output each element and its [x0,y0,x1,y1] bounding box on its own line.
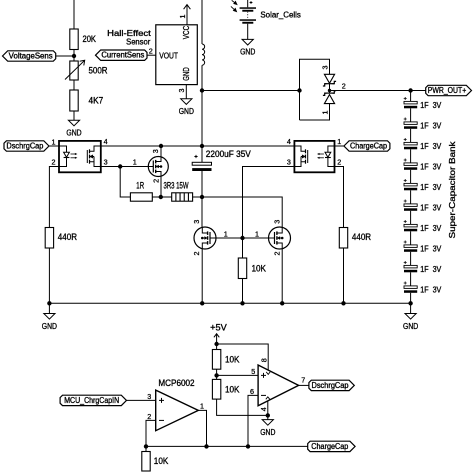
svg-text:GND: GND [179,107,194,116]
wire: node B to diode anodes [202,90,300,92]
svg-text:4: 4 [287,137,291,146]
svg-text:10K: 10K [154,456,169,466]
svg-text:440R: 440R [352,232,371,242]
junction pin4/GND node [266,413,270,417]
wire: diode pin 2 to PWR_OUT node [330,90,411,92]
wire: 10K pulldown to GND rail [242,279,244,304]
wire: cap node to M3 drain [202,197,282,227]
svg-text:3: 3 [177,89,186,93]
junction cap bottom node [200,195,204,199]
wire: divider top to mid node [216,369,218,375]
wire: U4B output to DschrgCap label [299,384,309,386]
wire: source node to 3R3 [161,196,172,198]
junction gate node [240,236,244,240]
svg-text:VoltageSens: VoltageSens [9,52,53,61]
wire: M1 source down [160,176,162,197]
svg-text:1F 3V: 1F 3V [420,182,441,192]
svg-text:7: 7 [301,375,305,384]
wire: DschrgCap label to U2 pin 1 [49,145,59,147]
svg-text:GND: GND [66,129,81,138]
svg-text:1R: 1R [136,180,144,190]
wire: U2 pin 2 to 440R [49,167,59,228]
junction feedback left [144,444,148,448]
junction node B (inductor/solar) [200,88,204,92]
svg-text:Sensor: Sensor [126,37,150,47]
svg-text:GND: GND [403,322,418,331]
wire: C6 to C7 [410,211,412,225]
junction gate/1R node [118,164,122,168]
junction PWR_OUT node [408,88,412,92]
optocoupler U2 [59,141,101,172]
wire: 3R3 to cap node [193,196,202,198]
svg-text:2: 2 [52,158,56,167]
resistor 20K [70,29,78,50]
capacitor C3 1F supercap [404,138,418,149]
wire: 2200uF to cap node [201,171,203,197]
wire: top feed to inductor [201,0,203,44]
svg-text:ChargeCap: ChargeCap [311,442,349,451]
svg-text:6: 6 [250,387,254,396]
resistor 10K divider top [212,350,220,370]
svg-text:1F 3V: 1F 3V [420,121,441,131]
svg-text:3: 3 [104,157,108,166]
op-amp U4B MCP6002 [258,365,299,406]
wire: cap node down to M2 drain [201,197,203,227]
wire: U4A pin 2 feedback [146,420,156,446]
potentiometer 500R [65,60,85,80]
wire: U3 pin 2 to 440R right [335,167,344,228]
svg-text:2: 2 [152,179,161,183]
wire: mid node to op-amp pin 5 [217,374,259,376]
wire: mid node to divider bottom [216,375,218,379]
wire: feedback rail [146,445,308,447]
svg-text:VOUT: VOUT [159,50,178,60]
wire: U4B pin 6 wire [248,395,258,446]
wire: rail to 2200uF [201,146,203,162]
junction divider mid node [214,373,218,377]
wire: node to PWR_OUT+ label [411,90,426,92]
wire: op-amp U4B pin 4 to GND [267,401,269,416]
junction diode pin 2 [328,89,331,92]
svg-text:CurrentSens: CurrentSens [101,51,144,60]
wire: gate node to M3 gate [243,237,269,239]
svg-text:DschrgCap: DschrgCap [6,142,44,151]
ground right of rail [403,314,418,331]
svg-text:MCP6002: MCP6002 [158,378,194,388]
svg-text:1F 3V: 1F 3V [420,285,441,295]
svg-text:2: 2 [192,252,201,256]
wire: top feed to 20K [73,0,75,29]
junction 2200uF top on rail [200,144,204,148]
svg-text:1: 1 [52,138,56,147]
junction diode anode node [297,88,301,92]
op-amp U4B V+ chevron [266,372,270,375]
capacitor C5 1F supercap [404,179,418,190]
op-amp U4A minus mark [159,419,164,421]
wire: PWR_OUT node down to C1 [410,91,412,102]
wire: C4 to C5 [410,170,412,184]
wire: feedback node to 10K bottom [145,446,147,451]
wire: diode common cathode [329,84,331,93]
svg-text:1F 3V: 1F 3V [420,264,441,274]
svg-text:GND: GND [182,67,191,80]
resistor 3R3 15W [172,193,193,201]
svg-text:5: 5 [251,367,255,376]
ground under 4K7 [66,120,81,137]
svg-text:3: 3 [287,157,291,166]
wire: sensor GND pin 3 [185,85,187,99]
op-amp U4B V- chevron [266,397,270,400]
optocoupler U2 internal photoFET [87,146,101,167]
svg-text:Super-Capacitor Bank: Super-Capacitor Bank [448,140,457,238]
svg-text:10K: 10K [252,263,267,273]
transistor M2 [194,227,216,249]
svg-text:1F 3V: 1F 3V [420,141,441,151]
junction rail/440R left [47,301,51,305]
transistor M1 [148,157,168,177]
capacitor C4 1F supercap [404,159,418,170]
capacitor C8 1F supercap [404,241,418,252]
wire: C3 to C4 [410,149,412,163]
ground under solar cells [240,39,255,56]
wire: gate node down to 1R [120,167,130,198]
optocoupler U3 internal LED [325,146,335,167]
wire: C9 to C10 [410,272,412,286]
wire: 1R to M1 source node [152,196,161,198]
svg-text:1: 1 [200,401,204,410]
wire: +5V node to op-amp pin 8 [217,344,269,370]
wire: 440R right to GND rail [343,248,345,303]
optocoupler U3 internal photoFET [294,146,307,167]
wire: C1 to C2 [410,108,412,122]
op-amp U4A plus mark [159,398,164,403]
inductor L1 [202,44,205,65]
svg-text:4: 4 [104,137,108,146]
svg-text:1F 3V: 1F 3V [420,203,441,213]
capacitor C2 1F supercap [404,118,418,129]
transistor M3 [269,227,291,249]
junction rail/supercap bank [408,301,412,305]
junction U4A output node [204,444,208,448]
wire: main GND rail [49,302,410,304]
capacitor C7 1F supercap [404,220,418,231]
svg-text:3: 3 [192,220,201,224]
wire: C2 to C3 [410,129,412,143]
net label ChargeCap (bottom) [308,441,355,451]
wire: diode anode loop bottom [300,104,330,120]
svg-text:500R: 500R [89,66,108,76]
junction +5V node [214,342,218,346]
svg-text:1F 3V: 1F 3V [420,223,441,233]
wire: GND node stub [267,415,269,419]
svg-text:2: 2 [147,412,151,421]
junction M1 source / resistor node [159,195,163,199]
wire: 440R left to GND rail [48,248,50,303]
wire: U3 pin 3 to gate node [243,167,295,239]
capacitor C6 1F supercap [404,200,418,211]
wire: VoltageSens label to node [56,55,74,57]
junction M1 drain on rail [159,144,163,148]
svg-text:PWR_OUT+: PWR_OUT+ [428,86,467,95]
dual schottky diode D1 top half [323,74,336,86]
capacitor 2200uF 35V [192,155,211,171]
junction rail/M3 source [280,301,284,305]
svg-text:2200uF 35V: 2200uF 35V [206,149,251,159]
net label DschrgCap (output) [309,380,354,390]
optocoupler U2 light arrows [71,153,78,159]
op-amp U4B plus mark [261,373,266,378]
svg-text:2: 2 [273,252,282,256]
wire: gate node to 10K pulldown [242,238,244,258]
svg-text:DschrgCap: DschrgCap [312,381,350,390]
wire: U2 pin 4 to U3 pin 4 rail [101,145,295,147]
junction pin6/rail [246,444,250,448]
svg-text:20K: 20K [83,34,97,44]
net label CurrentSens [96,50,148,60]
wire: inductor to node B [201,65,203,90]
svg-text:2: 2 [337,157,341,166]
op-amp U4B minus mark [261,394,266,396]
net label MCU_ChrgCapIN [60,395,126,405]
wire: CurrentSens label to VOUT pin [147,54,156,56]
svg-text:3: 3 [147,392,151,401]
net label PWR_OUT+ [426,85,472,95]
ground op-amp U4B [260,420,275,437]
capacitor C9 1F supercap [404,261,418,272]
wire: divider bottom to GND node [217,399,268,415]
junction rail/M2 source [200,301,204,305]
wire: C5 to C6 [410,190,412,204]
wire: node B down to rail [201,91,203,147]
svg-text:MCU_ChrgCapIN: MCU_ChrgCapIN [64,396,119,405]
wire: rail stub to left GND [48,303,50,313]
svg-text:1: 1 [255,229,259,238]
optocoupler U3 [294,141,334,172]
svg-text:GND: GND [42,322,57,331]
wire: C10 to GND rail [410,293,412,304]
svg-text:3: 3 [151,149,160,153]
op-amp U4A MCP6002 [156,390,199,431]
svg-text:GND: GND [260,428,275,437]
resistor 10K feedback [142,452,150,472]
net label VoltageSens [3,51,56,61]
svg-text:ChargeCap: ChargeCap [350,142,388,151]
capacitor C1 1F supercap [404,97,418,108]
wire: C7 to C8 [410,231,412,245]
svg-text:440R: 440R [58,232,77,242]
wire: top feed to solar cells [247,0,249,7]
svg-text:8: 8 [260,358,269,362]
wire: +5V node to 10K divider top [216,344,218,350]
wire: 4K7 to GND [73,111,75,120]
resistor 10K gate pulldown [238,258,246,279]
svg-text:3R3 15W: 3R3 15W [164,180,189,190]
svg-text:Solar_Cells: Solar_Cells [260,10,301,20]
svg-text:3: 3 [273,220,282,224]
optocoupler U3 light arrows [317,153,324,159]
svg-text:4K7: 4K7 [89,96,104,106]
svg-text:1: 1 [133,158,137,167]
wire: M1 drain to rail [160,146,162,157]
wire: MCU_ChrgCapIN to U4A pin 3 [127,399,156,401]
Hall-Effect sensor U1 [156,25,198,85]
wire: M2 gate to gate node [216,237,243,239]
svg-text:2: 2 [149,47,153,56]
net label ChargeCap (top) [344,141,390,151]
capacitor C10 1F supercap [404,282,418,293]
svg-text:1: 1 [224,229,228,238]
optocoupler U2 internal LED [59,146,69,167]
resistor 440R right [339,228,347,249]
power +5V symbol [214,334,219,344]
wire: 20K to node VoltageSens [73,50,75,62]
svg-text:10K: 10K [225,354,240,364]
svg-text:1: 1 [337,137,341,146]
svg-text:GND: GND [240,48,255,57]
wire: U2 pin 3 to M1 gate [101,166,149,168]
junction VoltageSens node [72,54,76,58]
power arrow on VCC pin 1 [184,5,191,25]
wire: diode anode loop [300,59,330,120]
dual schottky diode D1 bottom half [323,91,336,104]
wire: rail stub to right GND [410,303,412,313]
svg-text:1F 3V: 1F 3V [420,162,441,172]
svg-text:2: 2 [342,81,346,90]
svg-text:1: 1 [320,111,329,115]
wire: C8 to C9 [410,252,412,266]
svg-text:1F 3V: 1F 3V [420,100,441,110]
svg-text:VCC: VCC [182,26,191,39]
svg-text:10K: 10K [225,384,240,394]
resistor 10K divider bottom [212,379,220,399]
junction rail/10K pulldown [240,301,244,305]
wire: U3 pin 1 to ChargeCap label [335,145,344,147]
resistor 440R left [45,228,53,249]
ground left of rail [42,314,57,331]
svg-text:1: 1 [178,15,187,19]
resistor 4K7 [70,90,78,111]
net label DschrgCap [4,141,49,151]
wire: M3 source to GND rail [281,249,283,303]
svg-text:+5V: +5V [210,323,227,333]
battery Solar_Cells [231,0,256,23]
ground under sensor [179,99,194,116]
svg-text:4: 4 [259,407,268,411]
plus mark of solar cells [250,1,253,4]
wire: solar cells to GND [247,24,249,40]
junction rail/440R right [341,301,345,305]
svg-text:3: 3 [320,66,329,70]
wire: 500R to 4K7 [73,80,75,90]
wire: M2 source to GND rail [201,249,203,303]
wire: U4A output down [198,410,206,446]
resistor 1R [130,193,152,201]
svg-text:1F 3V: 1F 3V [420,244,441,254]
